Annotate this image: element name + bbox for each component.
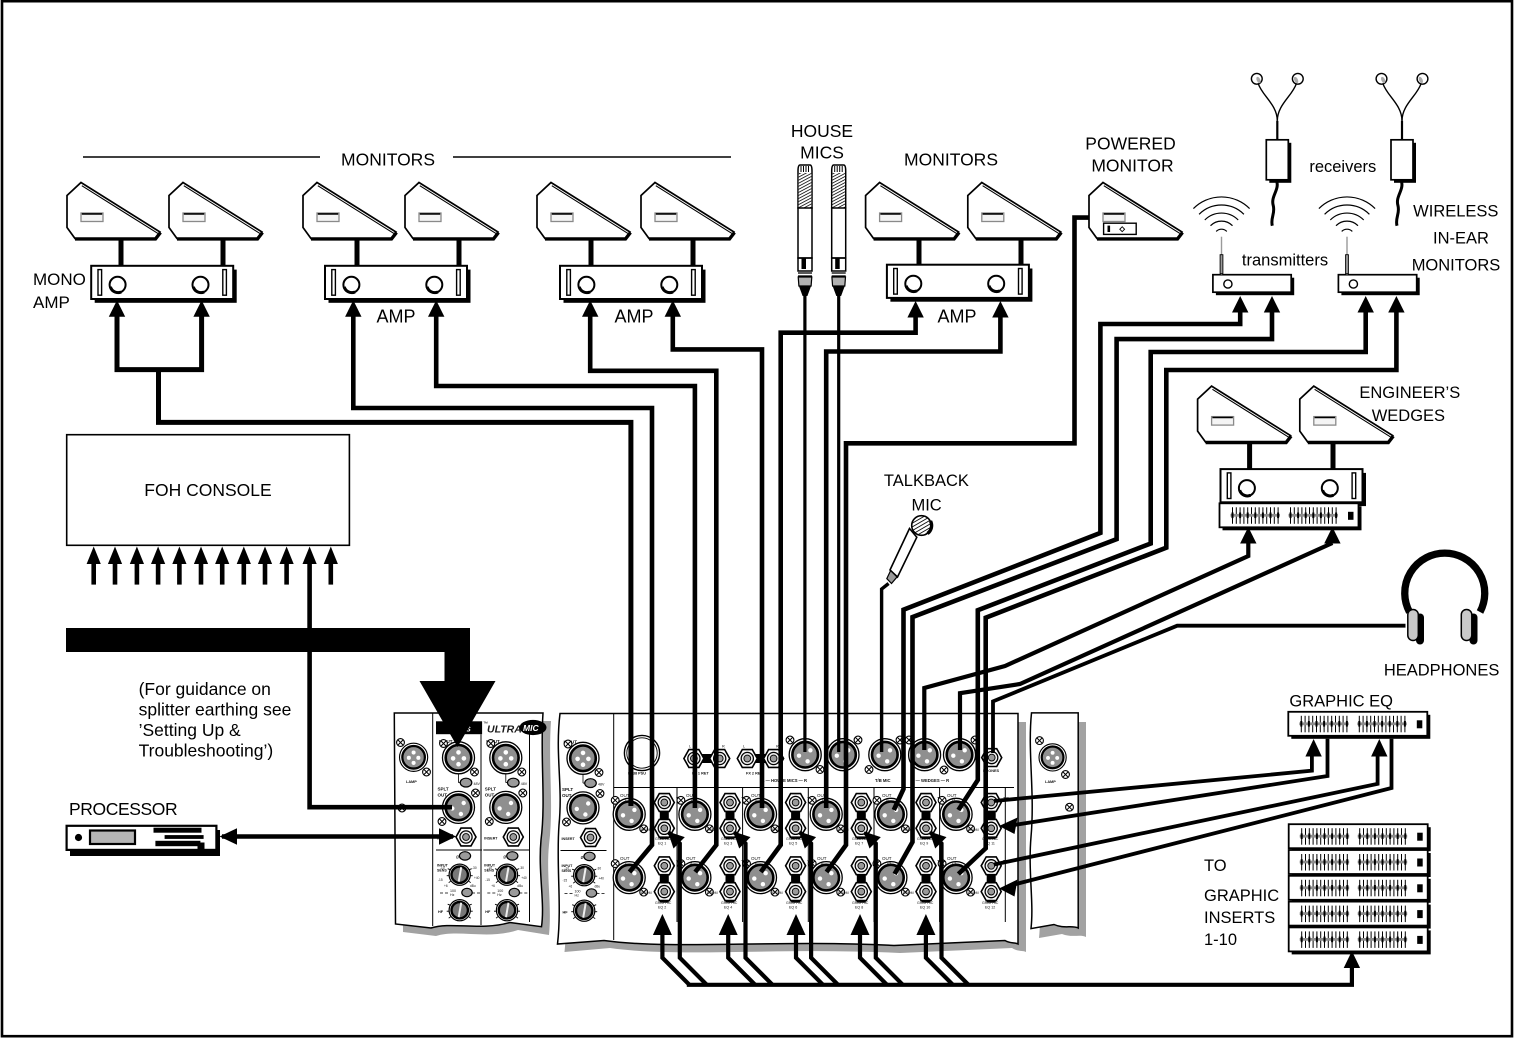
- wire: OUT9 to transmitter1 left: [894, 312, 1240, 810]
- out 12 column: [938, 856, 1009, 910]
- amp 4: [887, 265, 1033, 302]
- main panel shadow: [565, 722, 1027, 953]
- speaker stand wedge1: [119, 238, 124, 267]
- talkback mic: [887, 516, 932, 584]
- PSU blank circle: [624, 735, 659, 770]
- house mic 1: [798, 165, 812, 296]
- engineer's wedge 2: [1300, 386, 1394, 442]
- svg-text:receivers: receivers: [1309, 158, 1376, 176]
- svg-text:FROM: FROM: [707, 891, 718, 895]
- svg-text:HOUSE: HOUSE: [791, 121, 853, 141]
- wedges XLR R: [944, 739, 976, 771]
- svg-text:splitter earthing see: splitter earthing see: [139, 700, 292, 720]
- svg-text:FROM: FROM: [641, 891, 652, 895]
- svg-text:L — WEDGES — R: L — WEDGES — R: [912, 778, 949, 783]
- wire: OUT3 to amp2 right: [436, 314, 695, 808]
- FOH console input arrows: [94, 562, 331, 585]
- svg-text:(For guidance on: (For guidance on: [139, 679, 271, 699]
- wire: OUT7 to amp4 right: [826, 315, 1000, 808]
- svg-text:FROM: FROM: [903, 891, 914, 895]
- wedges XLR L: [909, 739, 941, 771]
- speaker stand wedge4: [457, 238, 462, 267]
- svg-text:PROCESSOR: PROCESSOR: [69, 799, 177, 819]
- svg-text:MONO: MONO: [33, 270, 86, 289]
- wedge monitor 3: [303, 183, 397, 239]
- svg-text:L: L: [743, 745, 745, 749]
- splitter model band: [436, 721, 482, 734]
- phones jack: [982, 749, 1002, 767]
- amp 3: [560, 266, 706, 303]
- out 9 column: [873, 793, 944, 846]
- engineer's wedge stand 2: [1331, 443, 1336, 470]
- svg-text:MONITORS: MONITORS: [1412, 257, 1501, 275]
- in-ear receiver 2: [1376, 73, 1428, 225]
- engineer's wedge stand 1: [1247, 443, 1252, 470]
- insert return arrows from below (ch2,4,6,8,10): [662, 929, 953, 985]
- wire: mixer TO 11 to graphic eq: [994, 756, 1312, 801]
- svg-text:FROM: FROM: [968, 891, 979, 895]
- house mics XLR L: [789, 739, 821, 771]
- splitter channel 1: [436, 739, 482, 921]
- talkback mic cable: [882, 584, 889, 753]
- svg-text:AMP: AMP: [614, 307, 653, 327]
- T/B mic XLR: [869, 739, 901, 771]
- wire: wedges R to engineer's eq: [960, 543, 1332, 750]
- engineer's amp: [1221, 469, 1367, 506]
- svg-text:WEDGES: WEDGES: [1372, 407, 1445, 425]
- svg-text:HEADPHONES: HEADPHONES: [1384, 662, 1500, 680]
- wire: graphic eq to mixer FROM 11: [1014, 739, 1328, 825]
- right torn piece shadow: [1038, 722, 1086, 938]
- svg-text:TO: TO: [1204, 857, 1227, 875]
- wire: splitter split out to FOH console: [310, 562, 452, 807]
- out 8 column: [808, 856, 879, 910]
- wire: OUT1 to mono amp junction: [115, 314, 631, 806]
- speaker stand wedge2: [221, 238, 226, 267]
- svg-text:L — HOUSE MICS — R: L — HOUSE MICS — R: [762, 778, 807, 783]
- wedge monitor 6: [641, 183, 735, 239]
- wire: mixer TO 12 to graphic eq: [994, 756, 1378, 865]
- speaker stand wedge7: [917, 238, 922, 267]
- svg-text:MIC: MIC: [523, 723, 539, 733]
- graphic eq (single): [1288, 712, 1430, 739]
- out 1 column: [611, 793, 682, 846]
- insert send lines to bus (ch1,3,5,7,9): [669, 833, 969, 985]
- svg-text:’Setting Up &: ’Setting Up &: [139, 720, 241, 740]
- svg-text:MONITORS: MONITORS: [341, 150, 435, 170]
- lamp XLR (right piece): [1039, 744, 1066, 771]
- svg-text:INSERTS: INSERTS: [1204, 909, 1275, 927]
- FOH console box: [67, 435, 350, 546]
- svg-text:LAMP: LAMP: [1045, 780, 1056, 784]
- svg-text:TALKBACK: TALKBACK: [884, 472, 969, 490]
- column dividers: [677, 788, 1005, 923]
- svg-text:FROM: FROM: [838, 891, 849, 895]
- engineer's wedge 1: [1198, 386, 1292, 442]
- wire: wedges L to engineer's eq: [924, 543, 1248, 750]
- engineer's graphic eq: [1220, 503, 1362, 530]
- headphones symbol: [1405, 553, 1485, 644]
- speaker stand wedge5: [589, 238, 594, 267]
- out 3 column: [677, 793, 748, 846]
- wire: OUT12 to transmitter2 right: [958, 312, 1396, 874]
- svg-text:FROM: FROM: [772, 891, 783, 895]
- ULTRA MIC logo: [487, 720, 547, 736]
- svg-text:L: L: [689, 745, 691, 749]
- svg-text:1-10: 1-10: [1204, 931, 1237, 949]
- house mics XLR R: [827, 739, 859, 771]
- in-ear receiver 1: [1251, 73, 1303, 225]
- svg-text:T/B MIC: T/B MIC: [875, 778, 891, 783]
- svg-text:GRAPHIC EQ: GRAPHIC EQ: [1289, 693, 1393, 711]
- svg-text:Troubleshooting’): Troubleshooting’): [139, 741, 274, 761]
- svg-text:AMP: AMP: [376, 307, 415, 327]
- house mic 2: [832, 165, 846, 296]
- graphic inserts rack 3: [1289, 876, 1431, 903]
- house mic cable 2: [837, 294, 840, 752]
- out 4 column: [677, 856, 748, 910]
- svg-text:transmitters: transmitters: [1242, 252, 1328, 270]
- svg-text:MIC: MIC: [911, 497, 941, 515]
- splitter divider lines: [432, 713, 434, 926]
- svg-text:AMP: AMP: [937, 307, 976, 327]
- graphic inserts rack 5: [1289, 927, 1431, 954]
- powered monitor power switch: [1104, 223, 1137, 234]
- wire: graphic eq to mixer FROM 12: [1012, 739, 1392, 885]
- graphic inserts rack 4: [1289, 902, 1431, 929]
- svg-text:AMP: AMP: [33, 293, 70, 312]
- processor unit: [67, 826, 220, 856]
- wedge monitor 8: [968, 183, 1062, 239]
- mono amp: [91, 266, 237, 303]
- splitter channel 2: [483, 739, 529, 921]
- svg-text:FROM: FROM: [968, 828, 979, 832]
- speaker stand wedge6: [691, 238, 696, 267]
- top row divider: [614, 787, 1014, 789]
- main panel channel strip: [561, 740, 607, 922]
- graphic inserts rack 1: [1289, 824, 1431, 851]
- powered monitor wedge: [1089, 183, 1183, 239]
- wedge monitor 1: [67, 183, 161, 239]
- svg-text:LAMP: LAMP: [406, 780, 417, 784]
- svg-text:POWERED: POWERED: [1085, 134, 1175, 154]
- out 2 column: [611, 856, 682, 910]
- wedge monitor 2: [169, 183, 263, 239]
- main mixer panel: [558, 714, 1019, 946]
- out 7 column: [808, 793, 879, 846]
- speaker stand wedge8: [1019, 238, 1024, 267]
- wire: insert to processor: [222, 834, 453, 838]
- wire: OUT8 to powered monitor: [827, 218, 1090, 872]
- splitter left piece shadow: [402, 721, 551, 936]
- svg-text:MONITOR: MONITOR: [1091, 156, 1173, 176]
- svg-text:R: R: [722, 745, 725, 749]
- svg-text:MONITORS: MONITORS: [904, 150, 998, 170]
- wire: OUT2 to amp2 left: [353, 314, 652, 872]
- svg-text:MICS: MICS: [800, 143, 844, 163]
- out 6 column: [743, 856, 814, 910]
- svg-text:GRAPHIC: GRAPHIC: [1204, 887, 1279, 905]
- monitors label rule right: [453, 156, 731, 158]
- transmitter 1: [1193, 197, 1294, 295]
- FX2 RET jacks: [750, 754, 770, 763]
- out 5 column: [743, 793, 814, 846]
- wire: phones jack to headphones: [993, 626, 1406, 753]
- monitors label rule left: [83, 156, 320, 158]
- wedge monitor 5: [537, 183, 631, 239]
- thick multicore from FOH console to splitter input: [66, 628, 496, 747]
- graphic inserts bus: [687, 968, 1352, 985]
- splitter left piece panel: [394, 713, 543, 928]
- house mic cable 1: [803, 294, 806, 752]
- speaker stand wedge3: [355, 238, 360, 267]
- FX1 RET jacks: [697, 754, 717, 763]
- wedge monitor 7: [866, 183, 960, 239]
- graphic inserts rack 2: [1289, 850, 1431, 877]
- insert return arrowheads at FROM jacks (row 2): [668, 832, 947, 849]
- svg-text:FOH CONSOLE: FOH CONSOLE: [144, 480, 271, 500]
- wedge monitor 4: [405, 183, 499, 239]
- wire: OUT4 to amp3 left: [590, 314, 716, 872]
- svg-text:ENGINEER’S: ENGINEER’S: [1359, 384, 1460, 402]
- wire: OUT10 to transmitter1 right: [895, 312, 1272, 874]
- out 10 column: [873, 856, 944, 910]
- wire: OUT5 to amp3 right: [673, 314, 762, 808]
- svg-text:ULTRA: ULTRA: [487, 724, 522, 736]
- svg-text:WIRELESS: WIRELESS: [1413, 203, 1498, 221]
- amp 2: [325, 266, 471, 303]
- lamp XLR (left): [400, 743, 428, 771]
- wire: OUT6 to amp4 left: [761, 315, 916, 872]
- transmitter 2: [1319, 197, 1420, 295]
- wire: OUT11 to transmitter2 left: [958, 312, 1365, 810]
- svg-text:IN-EAR: IN-EAR: [1433, 230, 1489, 248]
- out 11 column: [938, 793, 1009, 846]
- right torn piece: [1030, 713, 1078, 929]
